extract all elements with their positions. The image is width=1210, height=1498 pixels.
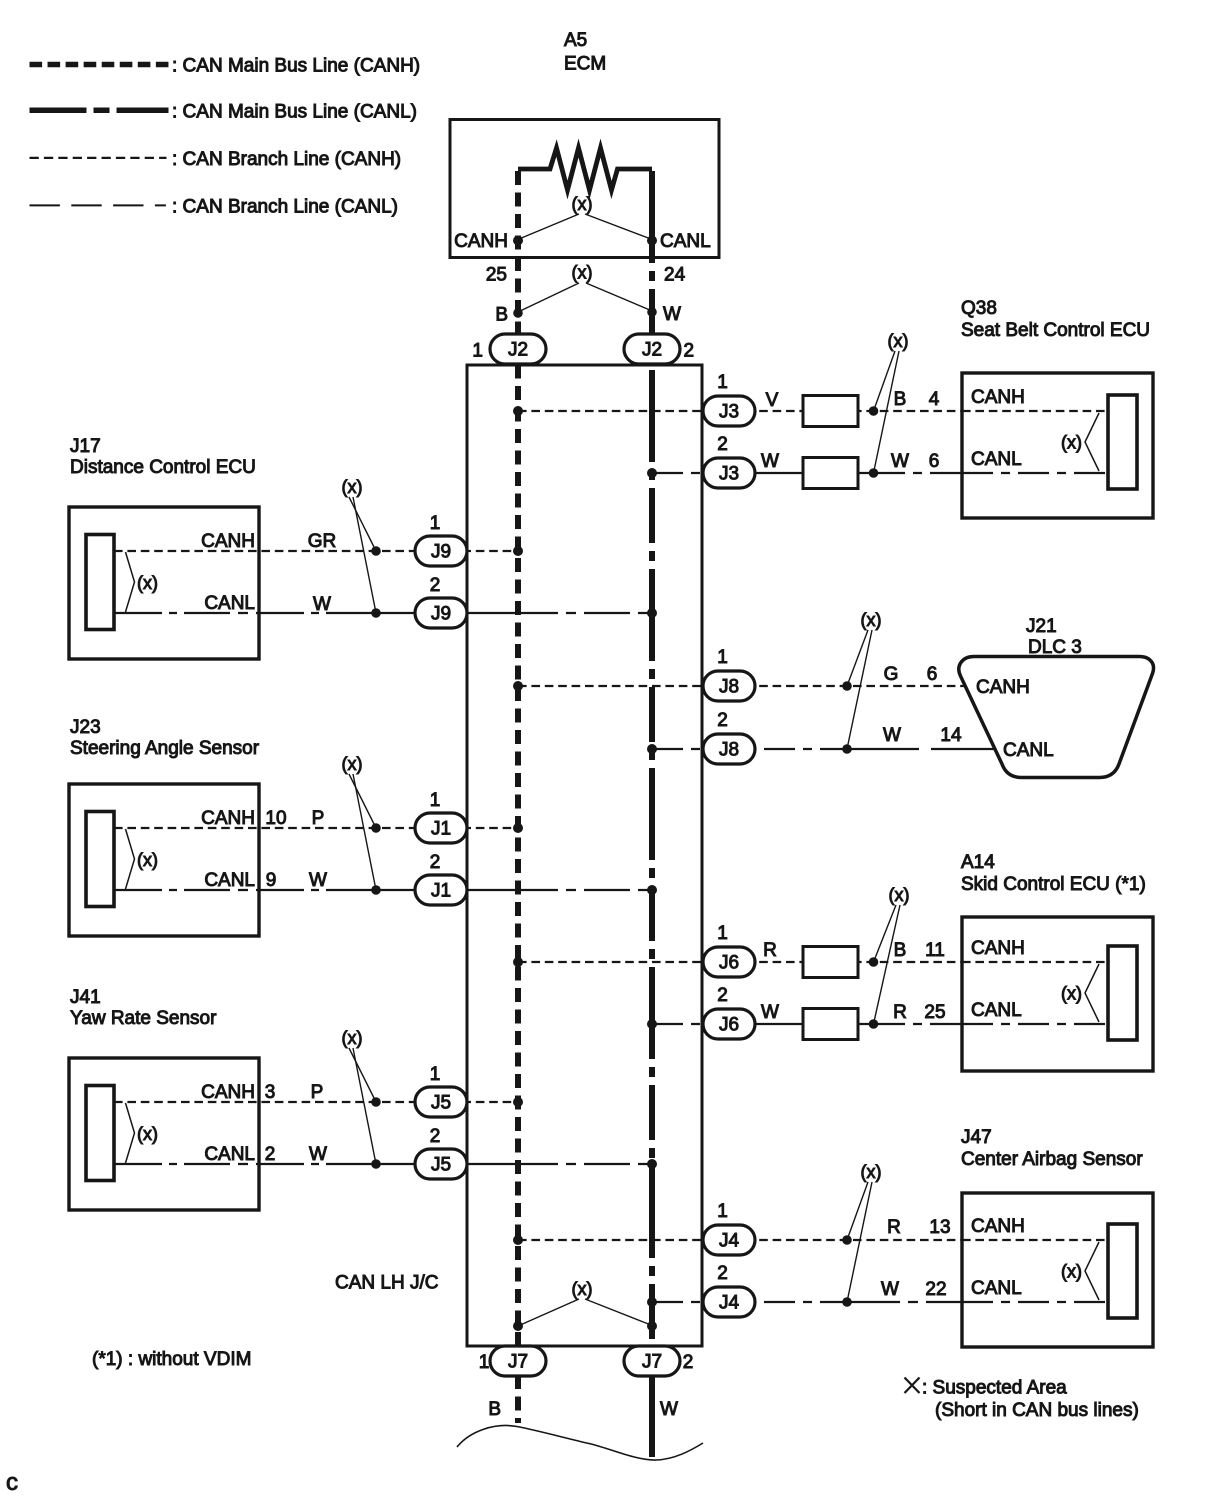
wire CANL inside A14 Skid Control ECU <box>962 1023 1110 1025</box>
junction node CANL branch (A14) <box>869 1019 879 1029</box>
svg-text:2: 2 <box>717 985 728 1006</box>
svg-text:P: P <box>312 808 325 829</box>
svg-text:CANH: CANH <box>201 531 255 552</box>
svg-text:W: W <box>309 870 327 891</box>
svg-text:ECM: ECM <box>564 54 606 75</box>
svg-text:c: c <box>6 1469 18 1496</box>
connector J9 pin 2 <box>415 598 467 628</box>
svg-text:10: 10 <box>265 808 286 829</box>
svg-text:J8: J8 <box>719 677 739 698</box>
svg-text:W: W <box>660 1399 678 1420</box>
svg-text:J41: J41 <box>70 987 101 1008</box>
svg-text:(x): (x) <box>137 573 158 593</box>
node on CANL main bus (row J5-2) <box>647 1159 657 1169</box>
wire CANL branch to A14 <box>652 1023 755 1025</box>
svg-text:R: R <box>893 1002 907 1023</box>
junction node CANL branch (J17) <box>371 608 381 618</box>
svg-text:CANH: CANH <box>971 387 1025 408</box>
svg-text:2: 2 <box>717 434 728 455</box>
connector J1 pin 1 <box>415 813 467 843</box>
wire CANL branch to Q38 (segment) <box>755 472 874 474</box>
wire CANL branch from J41 <box>114 1163 376 1165</box>
wire CANL inside J47 Center Airbag Sensor <box>962 1301 1110 1303</box>
wire CANL branch from J41 (segment) <box>376 1163 652 1165</box>
svg-text:J7: J7 <box>642 1352 662 1373</box>
wire CANH inside A14 Skid Control ECU <box>962 961 1110 963</box>
svg-text:J7: J7 <box>508 1352 528 1373</box>
suspect bracket inside J23 Steering Angle Sensor <box>126 829 135 889</box>
node CANH at ECM <box>513 236 523 246</box>
svg-text:(x): (x) <box>888 331 909 351</box>
J41 Yaw Rate Sensor box <box>69 1058 259 1210</box>
svg-text:1: 1 <box>717 1201 728 1222</box>
wire CANL branch to DLC3 (solid run) <box>847 748 919 750</box>
node on CANL main bus (row J6-2) <box>647 1019 657 1029</box>
J17 Distance Control ECU box <box>69 507 259 659</box>
svg-text:1: 1 <box>430 1064 441 1085</box>
connector bar inside J47 Center Airbag Sensor <box>1108 1224 1137 1318</box>
wire CANL branch to Q38 <box>652 472 755 474</box>
wire CANH inside J47 Center Airbag Sensor <box>962 1239 1110 1241</box>
suspect bracket inside J47 Center Airbag Sensor <box>1085 1242 1099 1300</box>
wire CANL branch from J17 <box>114 612 376 614</box>
junction node CANH branch (J17) <box>371 546 381 556</box>
svg-text:Yaw Rate Sensor: Yaw Rate Sensor <box>70 1008 217 1029</box>
svg-text:B: B <box>488 1399 501 1420</box>
node on CANH main bus (row J4-1) <box>513 1235 523 1245</box>
wire CANH branch to DLC3 <box>518 685 972 687</box>
svg-text:2: 2 <box>430 575 441 596</box>
wire CANL branch to A14 (segment) <box>755 1023 874 1025</box>
junction node CANH branch (A14) <box>869 957 879 967</box>
svg-text:(x): (x) <box>137 850 158 870</box>
wire CANL branch from J23 <box>114 889 376 891</box>
connector J7 pin 1 <box>490 1346 546 1376</box>
svg-text:2: 2 <box>430 852 441 873</box>
svg-text:14: 14 <box>940 725 962 746</box>
svg-text:J6: J6 <box>719 953 739 974</box>
svg-text:P: P <box>311 1082 324 1103</box>
svg-text:J9: J9 <box>431 604 451 625</box>
svg-text:J5: J5 <box>431 1155 451 1176</box>
svg-text:: CAN Branch Line (CANL): : CAN Branch Line (CANL) <box>172 196 398 217</box>
svg-text:(x): (x) <box>342 754 363 774</box>
svg-text:25: 25 <box>924 1002 945 1023</box>
noise filter block CANH (A14 branch) <box>803 947 858 978</box>
wire CANH inside Q38 Seat Belt Control ECU <box>962 410 1110 412</box>
svg-text:J5: J5 <box>431 1093 451 1114</box>
connector J1 pin 2 <box>415 875 467 905</box>
wire CAN main bus CANH (vertical, heavy dashed) <box>515 171 521 1423</box>
wire CANL branch to DLC3 <box>652 748 847 750</box>
connector bar inside Q38 Seat Belt Control ECU <box>1108 395 1137 489</box>
svg-text:(Short in CAN bus lines): (Short in CAN bus lines) <box>935 1400 1139 1421</box>
pointer line to CANH node <box>349 1048 376 1102</box>
A14 Skid Control ECU box <box>962 917 1153 1071</box>
svg-text:W: W <box>881 1279 899 1300</box>
Q38 Seat Belt Control ECU box <box>962 373 1153 518</box>
connector J2 pin 1 <box>490 334 546 364</box>
svg-text:(x): (x) <box>342 477 363 497</box>
svg-text:3: 3 <box>265 1082 276 1103</box>
svg-text:: CAN Main Bus Line (CANL): : CAN Main Bus Line (CANL) <box>172 101 417 122</box>
pointer line to CANH node <box>847 630 868 686</box>
pointer line to CANL node <box>847 1182 872 1302</box>
connector J2 pin 2 <box>624 334 680 364</box>
svg-text:CANH: CANH <box>976 677 1030 698</box>
wire CANL branch to Q38 (segment 2) <box>874 472 962 474</box>
svg-text:J6: J6 <box>719 1015 739 1036</box>
node on CANH main bus (row J1-1) <box>513 823 523 833</box>
junction node CANL branch (Q38) <box>869 468 879 478</box>
node on CANL main bus (row J9-2) <box>647 608 657 618</box>
svg-text:B: B <box>894 940 907 961</box>
svg-text:9: 9 <box>266 870 277 891</box>
connector bar inside J23 Steering Angle Sensor <box>86 812 114 907</box>
svg-text:W: W <box>313 594 331 615</box>
svg-text:B: B <box>495 305 508 326</box>
node on CANH main bus (row J3-1) <box>513 406 523 416</box>
connector bar inside J17 Distance Control ECU <box>86 535 114 630</box>
svg-text:W: W <box>761 451 779 472</box>
svg-text:1: 1 <box>430 513 441 534</box>
pointer line to CANL node <box>874 905 901 1024</box>
junction node CANH branch (J41) <box>371 1097 381 1107</box>
connector J5 pin 1 <box>415 1087 467 1117</box>
svg-text:J3: J3 <box>719 464 739 485</box>
node B (CANH wire colour) <box>513 308 523 318</box>
connector J8 pin 2 <box>703 734 755 764</box>
pointer line to ECM CANL node <box>585 214 651 239</box>
svg-text:W: W <box>891 451 909 472</box>
junction node CANH branch (J47) <box>842 1235 852 1245</box>
svg-text:(x): (x) <box>1061 433 1082 453</box>
pointer line to CANH node <box>518 1299 579 1326</box>
svg-text:1: 1 <box>717 923 728 944</box>
junction node CANL branch (J41) <box>371 1159 381 1169</box>
pointer line to CANL node <box>353 1048 376 1164</box>
svg-text:11: 11 <box>925 940 945 961</box>
svg-text:1: 1 <box>430 790 441 811</box>
svg-text:W: W <box>309 1144 327 1165</box>
svg-text:GR: GR <box>308 531 337 552</box>
node on CANL main bus (row J4-2) <box>647 1297 657 1307</box>
svg-text:1: 1 <box>717 647 728 668</box>
junction node CANH branch (DLC3) <box>842 681 852 691</box>
pointer line to CANH node <box>349 774 376 828</box>
pointer line to CANH node <box>847 1182 868 1240</box>
svg-text:CAN LH J/C: CAN LH J/C <box>335 1273 438 1294</box>
pointer line to CANL node <box>874 351 900 473</box>
svg-text:CANH: CANH <box>454 231 508 252</box>
svg-text:(*1) : without VDIM: (*1) : without VDIM <box>92 1349 251 1370</box>
svg-text:13: 13 <box>929 1217 950 1238</box>
connector J7 pin 2 <box>624 1346 680 1376</box>
svg-text:(x): (x) <box>572 263 593 283</box>
DLC 3 connector J21 (trapezoid) <box>959 657 1154 778</box>
svg-text:2: 2 <box>683 1352 694 1373</box>
legend line: CAN Branch Line (CANH) sample <box>30 157 167 159</box>
svg-text:J4: J4 <box>719 1231 740 1252</box>
node on CANH main bus (row J8-1) <box>513 681 523 691</box>
svg-text:R: R <box>887 1217 901 1238</box>
pointer line to CANL node <box>353 774 376 890</box>
connector J6 pin 1 <box>703 947 755 977</box>
svg-text:2: 2 <box>265 1144 276 1165</box>
svg-text:W: W <box>663 304 681 325</box>
connector J8 pin 1 <box>703 671 755 701</box>
svg-text:24: 24 <box>664 265 686 286</box>
pointer line to CANL node <box>353 497 376 613</box>
node on CANH main bus (row J6-1) <box>513 957 523 967</box>
svg-text:CANL: CANL <box>204 1144 255 1165</box>
junction node CANH branch (J23) <box>371 823 381 833</box>
svg-text:CANL: CANL <box>660 231 711 252</box>
svg-text:6: 6 <box>927 664 938 685</box>
svg-text:J3: J3 <box>719 402 739 423</box>
node on CANL main bus above J7 <box>647 1321 657 1331</box>
svg-text:CANL: CANL <box>204 593 255 614</box>
connector J9 pin 1 <box>415 536 467 566</box>
suspect bracket inside Q38 Seat Belt Control ECU <box>1085 413 1099 471</box>
svg-text:(x): (x) <box>1061 1262 1082 1282</box>
connector J4 pin 2 <box>703 1287 755 1317</box>
svg-text:Q38: Q38 <box>961 298 997 319</box>
svg-text:W: W <box>883 725 901 746</box>
svg-text:B: B <box>894 389 907 410</box>
svg-text:2: 2 <box>717 1263 728 1284</box>
node on CANL main bus (row J1-2) <box>647 885 657 895</box>
svg-text:Seat Belt Control ECU: Seat Belt Control ECU <box>961 320 1150 341</box>
svg-text:Distance Control ECU: Distance Control ECU <box>70 457 256 478</box>
svg-text:J9: J9 <box>431 542 451 563</box>
svg-text:CANL: CANL <box>971 1000 1022 1021</box>
node CANL at ECM <box>647 236 657 246</box>
junction node CANL branch (J47) <box>842 1297 852 1307</box>
svg-text:R: R <box>763 940 777 961</box>
wire CANH branch from J17 <box>114 550 518 552</box>
pointer line to ECM CANH node <box>519 214 579 239</box>
svg-text:Steering Angle Sensor: Steering Angle Sensor <box>70 738 260 759</box>
junction node CANL branch (J23) <box>371 885 381 895</box>
svg-text:: CAN Main Bus Line (CANH): : CAN Main Bus Line (CANH) <box>172 56 420 77</box>
CAN LH J/C junction box <box>467 365 702 1346</box>
svg-text:J1: J1 <box>431 881 451 902</box>
svg-text:4: 4 <box>929 389 940 410</box>
node on CANH main bus (row J9-1) <box>513 546 523 556</box>
svg-text:(x): (x) <box>889 885 910 905</box>
svg-text:A5: A5 <box>564 30 587 51</box>
svg-text:(x): (x) <box>342 1028 363 1048</box>
connector J5 pin 2 <box>415 1149 467 1179</box>
svg-text:2: 2 <box>717 710 728 731</box>
connector J6 pin 2 <box>703 1009 755 1039</box>
junction node CANH branch (Q38) <box>869 406 879 416</box>
svg-text:(x): (x) <box>572 1279 593 1299</box>
wire CANL branch to A14 (segment 2) <box>874 1023 962 1025</box>
svg-text:J23: J23 <box>70 717 101 738</box>
svg-text:6: 6 <box>929 451 940 472</box>
svg-text:CANH: CANH <box>971 1216 1025 1237</box>
wire CANL inside Q38 Seat Belt Control ECU <box>962 472 1110 474</box>
svg-text:J47: J47 <box>961 1127 992 1148</box>
wire CAN main bus CANL (vertical, heavy dash-dot) <box>649 171 655 1462</box>
connector J4 pin 1 <box>703 1225 755 1255</box>
svg-text:CANL: CANL <box>1003 740 1054 761</box>
svg-text:CANH: CANH <box>201 808 255 829</box>
J23 Steering Angle Sensor box <box>69 784 259 936</box>
continuation wave (bus continues) <box>457 1426 703 1460</box>
pointer line to CANH node <box>874 351 896 411</box>
connector J3 pin 2 <box>703 458 755 488</box>
wire CANH branch to Q38 <box>518 410 962 412</box>
svg-text:1: 1 <box>717 372 728 393</box>
svg-text:(x): (x) <box>861 1162 882 1182</box>
connector bar inside J41 Yaw Rate Sensor <box>86 1086 114 1181</box>
wire CANH branch from J23 <box>114 827 518 829</box>
connector bar inside A14 Skid Control ECU <box>1108 946 1137 1040</box>
svg-text:CANH: CANH <box>971 938 1025 959</box>
noise filter block CANH (Q38 branch) <box>803 396 858 427</box>
node on CANH main bus above J7 <box>513 1321 523 1331</box>
wire CANH branch from J41 <box>114 1101 518 1103</box>
svg-text:CANL: CANL <box>971 1278 1022 1299</box>
svg-text:2: 2 <box>430 1126 441 1147</box>
svg-text:A14: A14 <box>961 852 995 873</box>
svg-text:J1: J1 <box>431 819 451 840</box>
connector J3 pin 1 <box>703 396 755 426</box>
resistor terminating (inside ECM) <box>518 148 652 190</box>
svg-text:CANL: CANL <box>971 449 1022 470</box>
suspect bracket inside J41 Yaw Rate Sensor <box>126 1103 135 1163</box>
junction node CANL branch (DLC3) <box>842 744 852 754</box>
svg-text:G: G <box>884 664 899 685</box>
node on CANL main bus (row J8-2) <box>647 744 657 754</box>
wire CANH branch to A14 <box>518 961 962 963</box>
suspected area X symbol <box>905 1378 920 1394</box>
wire CANL branch from J23 (segment) <box>376 889 652 891</box>
wire CANL branch to DLC3 (last run) <box>931 748 999 750</box>
svg-text:: Suspected Area: : Suspected Area <box>922 1378 1067 1399</box>
pointer line to node W <box>586 283 651 311</box>
J47 Center Airbag Sensor box <box>962 1193 1153 1347</box>
legend line: CAN Branch Line (CANL) sample <box>30 204 166 206</box>
svg-text:J8: J8 <box>719 740 739 761</box>
svg-text:22: 22 <box>925 1279 946 1300</box>
wire CANL branch from J17 (segment) <box>376 612 652 614</box>
svg-text:(x): (x) <box>572 194 593 214</box>
svg-text:CANH: CANH <box>201 1082 255 1103</box>
svg-text:25: 25 <box>486 265 507 286</box>
svg-text:J2: J2 <box>508 340 528 361</box>
wire CANH branch to J47 <box>518 1239 962 1241</box>
svg-text:J2: J2 <box>642 340 662 361</box>
wire CANL branch to J47 (segment) <box>847 1301 962 1303</box>
suspect bracket inside A14 Skid Control ECU <box>1085 964 1099 1022</box>
suspect bracket inside J17 Distance Control ECU <box>126 552 135 612</box>
node W (CANL wire colour) <box>647 307 657 317</box>
svg-text:Center Airbag Sensor: Center Airbag Sensor <box>961 1149 1143 1170</box>
legend line: CAN Main Bus Line (CANL) sample <box>30 108 169 114</box>
svg-text:(x): (x) <box>137 1124 158 1144</box>
node on CANL main bus (row J3-2) <box>647 468 657 478</box>
svg-text:W: W <box>761 1002 779 1023</box>
svg-text:J21: J21 <box>1026 616 1057 637</box>
pointer line to CANL node <box>585 1299 651 1325</box>
svg-text:J17: J17 <box>70 436 101 457</box>
pointer line to CANH node <box>874 905 897 962</box>
svg-text:2: 2 <box>684 341 695 362</box>
svg-text:: CAN Branch Line (CANH): : CAN Branch Line (CANH) <box>172 149 401 170</box>
svg-text:(x): (x) <box>861 610 882 630</box>
legend line: CAN Main Bus Line (CANH) sample <box>30 62 169 68</box>
pointer line to CANL node <box>847 630 872 749</box>
ECM box A5 <box>450 120 719 258</box>
node on CANH main bus (row J5-1) <box>513 1097 523 1107</box>
svg-text:(x): (x) <box>1061 984 1082 1004</box>
wire CANL branch to J47 <box>652 1301 847 1303</box>
svg-text:1: 1 <box>472 341 483 362</box>
noise filter block CANL (A14 branch) <box>803 1009 858 1040</box>
svg-text:Skid Control ECU (*1): Skid Control ECU (*1) <box>961 874 1146 895</box>
svg-text:1: 1 <box>479 1352 490 1373</box>
pointer line to CANH node <box>349 497 376 551</box>
svg-text:V: V <box>766 390 779 411</box>
svg-text:J4: J4 <box>719 1293 740 1314</box>
svg-text:CANL: CANL <box>204 870 255 891</box>
noise filter block CANL (Q38 branch) <box>803 458 858 489</box>
pointer line to node B <box>519 283 579 312</box>
